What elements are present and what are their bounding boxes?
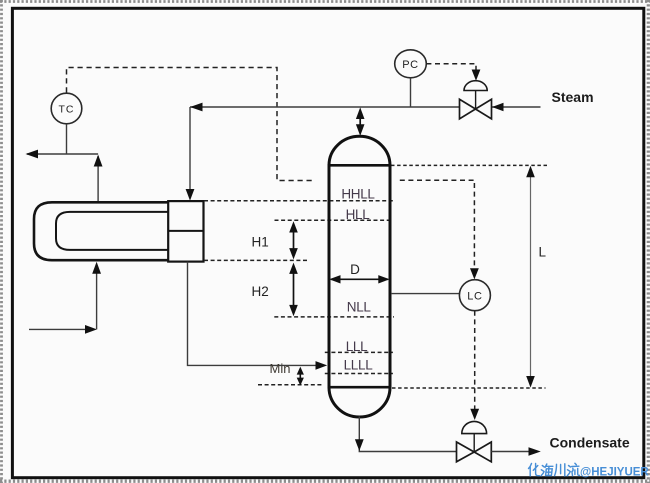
svg-text:Min: Min bbox=[270, 361, 291, 376]
steam supply line wire bbox=[190, 106, 460, 108]
outer dotted edge bottom bbox=[0, 480, 650, 483]
bottom tangent dashed extension bbox=[392, 387, 546, 389]
LC tap arrow down bbox=[470, 268, 479, 279]
svg-text:@HEJIYUER: @HEJIYUER bbox=[580, 467, 649, 479]
steam corner arrow left bbox=[190, 103, 203, 112]
TC stem wire bbox=[66, 124, 68, 154]
svg-text:Steam: Steam bbox=[552, 89, 594, 105]
vapor riser arrow up bbox=[94, 155, 103, 167]
steam valve actuator dome bbox=[464, 81, 487, 91]
L dimension line bbox=[526, 166, 535, 388]
H2 dimension arrow bbox=[289, 263, 298, 317]
watermark bbox=[529, 463, 650, 478]
steam drop wire bbox=[189, 107, 191, 196]
condensate valve stem bbox=[473, 434, 475, 453]
column vessel bbox=[329, 136, 390, 417]
TC controller signal dashed line bbox=[67, 68, 315, 181]
svg-text:LLLL: LLLL bbox=[344, 357, 374, 372]
svg-text:L: L bbox=[539, 244, 547, 259]
svg-text:LLL: LLL bbox=[346, 339, 368, 354]
top tangent line bbox=[328, 164, 392, 167]
Min dimension arrow bbox=[297, 367, 304, 386]
product arrow left bbox=[26, 150, 39, 159]
svg-text:HLL: HLL bbox=[346, 207, 371, 222]
NLL to LC wire bbox=[391, 293, 459, 295]
svg-text:NLL: NLL bbox=[347, 299, 372, 314]
svg-text:D: D bbox=[350, 262, 360, 277]
vapor riser wire bbox=[97, 156, 99, 201]
svg-text:H2: H2 bbox=[252, 284, 269, 299]
svg-text:TC: TC bbox=[59, 104, 75, 116]
HHLL dashed level bbox=[204, 200, 393, 202]
reboiler return drop wire bbox=[188, 262, 321, 366]
outer dotted edge right bbox=[647, 0, 650, 483]
svg-text:LC: LC bbox=[467, 290, 482, 302]
svg-text:Condensate: Condensate bbox=[550, 435, 630, 451]
steam control valve V1 bbox=[460, 99, 492, 119]
column top tangent dashed extension bbox=[391, 164, 548, 166]
steam line right segment wire bbox=[492, 106, 541, 108]
feed to column arrow bbox=[316, 361, 328, 370]
LLLL dashed level bbox=[325, 373, 393, 375]
feed inlet wire bbox=[29, 328, 94, 330]
PC stem wire bbox=[410, 78, 412, 107]
feed riser wire bbox=[96, 264, 98, 329]
steam arrow down into head bbox=[186, 189, 195, 201]
H1 dimension arrow bbox=[289, 221, 298, 259]
PC signal dashed bbox=[426, 64, 476, 72]
HLL dashed level bbox=[275, 219, 391, 221]
svg-text:HHLL: HHLL bbox=[341, 186, 375, 201]
TC controller U1 bbox=[51, 93, 82, 124]
outer dotted edge left bbox=[0, 0, 3, 483]
LC tap dashed bbox=[400, 180, 475, 271]
LC output arrow down bbox=[470, 409, 479, 420]
product line wire bbox=[27, 153, 98, 155]
bottom tangent line bbox=[328, 386, 392, 389]
PC signal arrow down bbox=[472, 70, 481, 81]
channel head pass partition bbox=[168, 230, 203, 232]
D dimension arrow bbox=[329, 275, 389, 283]
outer dotted edge top bbox=[0, 0, 650, 3]
steam flow arrow bbox=[492, 103, 504, 111]
condensate flow arrow bbox=[529, 447, 541, 456]
channel head bbox=[168, 201, 203, 262]
PC controller U2 bbox=[395, 50, 427, 78]
U-tube bundle bbox=[56, 212, 168, 250]
heat exchanger shell E1 bbox=[34, 202, 168, 260]
steam valve stem bbox=[475, 91, 477, 109]
svg-text:H1: H1 bbox=[252, 234, 269, 249]
feed arrow up bbox=[92, 262, 101, 274]
condensate outlet wire bbox=[491, 451, 529, 453]
Min bottom short dashed bbox=[258, 384, 322, 386]
LC output dashed bbox=[474, 311, 476, 411]
NLL dashed level bbox=[274, 316, 394, 318]
feed arrow right bbox=[85, 325, 97, 334]
svg-text:PC: PC bbox=[402, 59, 418, 71]
LLL dashed level bbox=[325, 351, 393, 353]
outlet corner arrow down bbox=[355, 439, 364, 451]
condensate valve actuator dome bbox=[462, 421, 487, 433]
condensate control valve V2 bbox=[457, 442, 492, 462]
LC controller U3 bbox=[459, 280, 490, 311]
vapor gap arrow (column top) bbox=[356, 107, 365, 135]
column outlet wire bbox=[359, 417, 456, 452]
tube top dashed level bbox=[204, 259, 307, 261]
